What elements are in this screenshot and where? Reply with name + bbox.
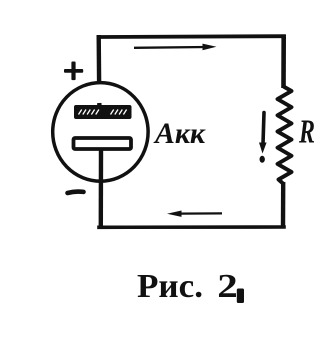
wire left bottom (negative plate down to bottom corner) — [99, 150, 104, 227]
battery negative plate (outlined) — [74, 138, 132, 149]
wire stub into top plate — [97, 103, 102, 108]
resistor R (zigzag) — [278, 87, 292, 184]
battery positive plate (hatched) — [74, 105, 132, 119]
caption Рис. 2 — [137, 268, 244, 305]
svg-text:Акк: Акк — [153, 117, 206, 150]
wire right top (top corner down to resistor) — [281, 35, 286, 88]
polarity label - — [68, 192, 84, 193]
svg-text:Рис.: Рис. — [137, 268, 203, 305]
current arrow top (pointing right) — [134, 44, 217, 51]
svg-text:2: 2 — [217, 268, 238, 305]
battery U1 envelope (circle) — [53, 83, 148, 182]
polarity label + — [64, 62, 83, 81]
wire bottom (left corner to right corner) — [99, 225, 284, 229]
wire right bottom (resistor down to bottom corner) — [281, 182, 286, 227]
current arrow bottom (pointing left) — [167, 211, 222, 217]
wire top (left corner to right corner) — [99, 34, 285, 39]
current arrow through resistor (pointing down) — [259, 113, 267, 163]
svg-text:R: R — [298, 113, 315, 150]
wire left top (top corner down to battery top plate) — [96, 35, 101, 106]
